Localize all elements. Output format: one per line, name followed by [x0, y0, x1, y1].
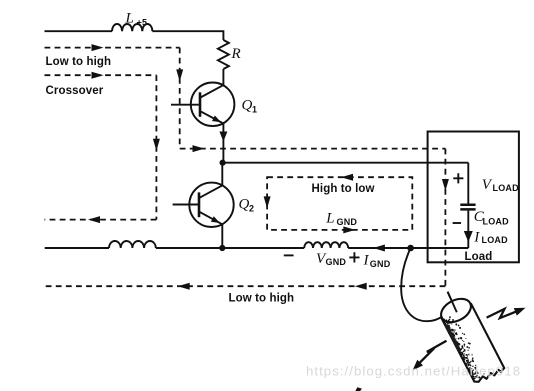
- arrow on high-to-low bottom edge (right): [343, 226, 355, 233]
- arrow on low-to-high top segment: [92, 44, 104, 51]
- label Q2: [239, 197, 255, 214]
- svg-text:GND: GND: [337, 217, 358, 227]
- wire top rail left segment: [45, 30, 113, 32]
- svg-text:2: 2: [249, 204, 254, 214]
- svg-text:LOAD: LOAD: [493, 183, 520, 193]
- svg-text:Crossover: Crossover: [46, 85, 104, 97]
- arrow on crossover top segment: [92, 72, 104, 79]
- label minus sign (V_GND): [284, 254, 294, 256]
- inductor (ground rail, left): [109, 241, 156, 248]
- current path dashed: down segment through load: [444, 149, 446, 288]
- arrow on high-to-low left edge (down): [264, 196, 271, 208]
- arrow on load down segment: [442, 179, 449, 191]
- current path dashed: down segment at x=180: [179, 48, 181, 148]
- cropped caption mark bottom: [355, 387, 362, 391]
- wire Q1 emitter down to node A: [222, 124, 224, 163]
- EMI bolt upper-right: [487, 308, 526, 318]
- current path dashed: low-to-high bottom return segment: [46, 285, 446, 287]
- svg-text:I: I: [473, 230, 480, 246]
- svg-text:GND: GND: [326, 257, 347, 267]
- current arrow I_GND on ground rail (pointing left): [373, 245, 385, 252]
- probe body dense shade band: [447, 326, 460, 351]
- current arrow on Q1 emitter wire: [219, 132, 227, 142]
- wire node A to load (capacitor branch): [223, 162, 469, 164]
- arrow on bottom return (left): [178, 283, 190, 290]
- svg-text:Q: Q: [242, 98, 253, 114]
- current arrow I_LOAD (pointing down): [464, 231, 473, 242]
- resistor R: [218, 40, 229, 69]
- inductor L+5: [112, 24, 152, 31]
- capacitor C_LOAD: [460, 205, 475, 210]
- current path dashed: crossover down segment: [155, 75, 157, 219]
- probe body stipple shading: [442, 316, 484, 380]
- svg-text:I: I: [363, 253, 370, 269]
- probe top face (ellipse): [437, 294, 475, 327]
- arrow on crossover down segment: [153, 139, 160, 151]
- label V_LOAD: [482, 177, 519, 193]
- svg-text:Load: Load: [465, 251, 493, 263]
- transistor Q2: [173, 183, 234, 227]
- wire top rail right segment into resistor: [152, 31, 223, 40]
- label V_GND: [316, 251, 346, 267]
- label plus sign (V_LOAD): [453, 173, 463, 183]
- label C_LOAD: [474, 209, 509, 227]
- svg-text:Q: Q: [239, 197, 250, 213]
- arrow on crossover bottom segment: [88, 216, 100, 223]
- probe body (cylinder): [442, 303, 505, 382]
- label L_GND: [325, 211, 357, 228]
- svg-text:L: L: [125, 11, 134, 27]
- probe tip line inside face: [448, 292, 457, 313]
- node C junction dot (probe tap on ground rail): [407, 245, 414, 252]
- label L+5: [125, 11, 148, 28]
- svg-text:High to low: High to low: [312, 183, 375, 195]
- wire node A down to Q2 collector: [221, 163, 223, 186]
- svg-text:+5: +5: [137, 18, 148, 28]
- wire ground rail left segment: [45, 247, 109, 249]
- svg-text:LOAD: LOAD: [482, 235, 509, 245]
- label minus sign (V_LOAD): [453, 222, 461, 224]
- arrow on high-to-low top edge (left): [341, 174, 353, 181]
- current path dashed: crossover horizontal segment to load: [180, 148, 446, 150]
- wire Q2 emitter down to ground rail: [221, 224, 223, 248]
- wire capacitor top lead: [467, 163, 469, 204]
- svg-text:https://blog.csdn.net/Harlep91: https://blog.csdn.net/Harlep918: [306, 364, 521, 379]
- transistor Q1: [171, 83, 234, 127]
- wire resistor to Q1 collector: [222, 69, 224, 85]
- inductor L_GND on ground rail: [304, 242, 348, 248]
- svg-text:Low to high: Low to high: [229, 293, 295, 305]
- EMI bolt lower-left: [413, 341, 447, 371]
- label plus sign (V_GND): [349, 252, 359, 262]
- current path dashed: crossover top segment: [45, 74, 157, 76]
- wire ground rail middle segment: [156, 247, 304, 249]
- wire capacitor bottom lead: [467, 211, 469, 248]
- svg-text:R: R: [231, 46, 241, 62]
- wire probe pigtail from node C: [401, 248, 443, 321]
- wire probe tip into probe face: [448, 292, 457, 311]
- label I_LOAD: [473, 230, 508, 246]
- node B junction dot (Q2 emitter on ground rail): [219, 245, 225, 251]
- svg-text:L: L: [325, 211, 334, 227]
- label Q1: [242, 98, 258, 115]
- current path dashed: crossover bottom segment: [45, 219, 157, 221]
- current path dashed: high-to-low loop box: [267, 177, 412, 230]
- svg-text:1: 1: [252, 105, 257, 115]
- node A junction dot (Q1 emitter / Q2 collector / load wire): [220, 160, 226, 166]
- svg-text:Low to high: Low to high: [46, 56, 112, 68]
- label I_GND: [363, 253, 391, 270]
- arrow on crossover horizontal segment: [193, 145, 205, 152]
- svg-text:V: V: [482, 177, 493, 193]
- current path dashed: low-to-high top segment: [45, 47, 180, 49]
- svg-text:GND: GND: [370, 259, 391, 269]
- arrow on bottom return (right): [355, 283, 367, 290]
- svg-text:LOAD: LOAD: [483, 217, 510, 227]
- wire ground rail right segment to load: [348, 247, 468, 249]
- arrow on down segment: [176, 69, 183, 81]
- load box: [428, 132, 519, 263]
